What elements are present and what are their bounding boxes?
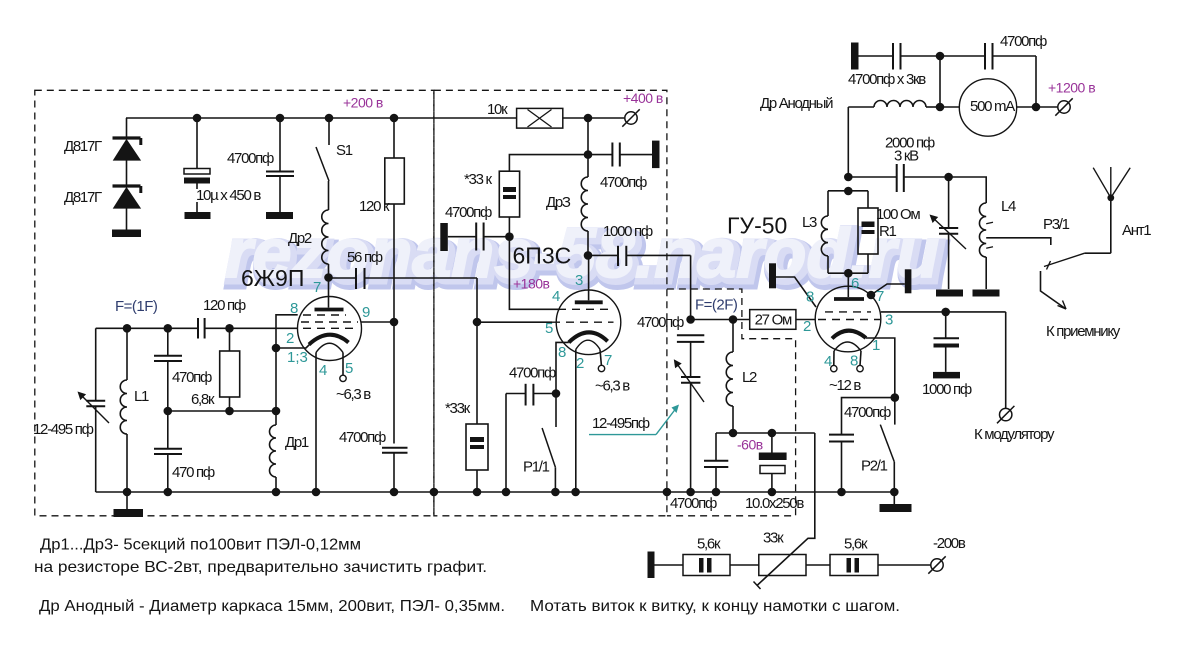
chassis bar bias left bbox=[648, 552, 655, 579]
svg-text:8: 8 bbox=[558, 344, 566, 361]
junction dot L1 top bbox=[123, 324, 132, 333]
svg-text:4: 4 bbox=[552, 288, 560, 305]
inductor L3 bbox=[827, 191, 829, 216]
junction dot 470pf top bbox=[164, 324, 173, 333]
wire mid node bbox=[168, 410, 276, 412]
ground symbol right bbox=[893, 492, 895, 504]
capacitor 1000pf modulator bbox=[945, 312, 947, 338]
svg-text:4: 4 bbox=[319, 362, 327, 379]
capacitor 4700pf screen bypass bbox=[440, 223, 448, 251]
junction dot L2 top bbox=[729, 315, 738, 324]
junction dot cathode 1;3 bbox=[272, 344, 281, 353]
wire to receiver bbox=[1041, 271, 1067, 309]
wire pin3 to modulator node bbox=[881, 311, 1006, 313]
chassis bar pin8 top bbox=[769, 263, 776, 288]
terminal pin7 heater circle (V2) bbox=[598, 365, 604, 371]
fuse/resistor 10k box bbox=[517, 108, 563, 128]
wire D2 to chassis bbox=[126, 208, 128, 230]
terminal pin5 heater circle bbox=[340, 375, 346, 381]
junction dot +180 node bbox=[505, 232, 514, 241]
svg-text:+1200 в: +1200 в bbox=[1048, 80, 1095, 96]
svg-text:4700пф: 4700пф bbox=[637, 314, 684, 331]
svg-text:5: 5 bbox=[345, 360, 353, 377]
wire ground rail bbox=[96, 491, 895, 493]
wire meter right bbox=[1017, 106, 1058, 108]
svg-text:9: 9 bbox=[362, 304, 370, 321]
pin 8 wire bbox=[776, 277, 816, 307]
svg-text:7: 7 bbox=[876, 288, 884, 305]
junction dot 10u cap on +200 rail bbox=[193, 114, 202, 123]
svg-text:3: 3 bbox=[885, 312, 893, 329]
junction dot L3R1 bottom bbox=[844, 269, 853, 278]
svg-text:Др Анодный: Др Анодный bbox=[760, 95, 833, 112]
svg-text:6,8к: 6,8к bbox=[191, 391, 215, 408]
variable capacitor PA tank bbox=[948, 177, 950, 228]
pin 7 wire to chassis bbox=[867, 291, 876, 300]
dashed box stage 1 bbox=[35, 90, 434, 516]
wire +180 to pin 4 of 6P3S bbox=[509, 237, 560, 310]
chassis bar 4700pf anode bbox=[652, 141, 660, 169]
svg-text:4700пф x 3кв: 4700пф x 3кв bbox=[848, 71, 926, 88]
junction dot 6P3S anode node bbox=[584, 251, 593, 260]
junction dot F2F input node bbox=[686, 315, 695, 324]
wire F2F node bbox=[691, 319, 750, 321]
wire filament pin4 6Ж9П to ground rail bbox=[315, 353, 317, 493]
svg-text:56 пф: 56 пф bbox=[347, 249, 383, 266]
wire grid pin5 6P3S bbox=[477, 321, 552, 323]
svg-text:F=(2F): F=(2F) bbox=[695, 297, 738, 314]
svg-text:4700пф: 4700пф bbox=[227, 150, 274, 167]
tube ГУ-50 cathode bbox=[832, 331, 866, 339]
wire -60V node bbox=[716, 432, 815, 434]
svg-text:1;3: 1;3 bbox=[287, 349, 308, 366]
switch P2/1 bbox=[894, 398, 896, 425]
chassis bar 1000pf PA bbox=[933, 372, 960, 379]
svg-text:4700пф: 4700пф bbox=[1000, 33, 1047, 50]
svg-text:470 пф: 470 пф bbox=[172, 464, 215, 481]
wire filament pin7 6P3S bbox=[600, 349, 601, 365]
svg-text:-200в: -200в bbox=[933, 535, 966, 552]
wire L4 top bbox=[949, 177, 987, 203]
wire screen node to 33k bbox=[509, 155, 588, 172]
svg-text:~6,3 в: ~6,3 в bbox=[595, 378, 630, 395]
svg-text:12-495 пф: 12-495 пф bbox=[33, 421, 94, 438]
svg-text:Р2/1: Р2/1 bbox=[861, 458, 888, 475]
svg-text:L4: L4 bbox=[1001, 198, 1016, 215]
svg-text:Мотать виток к витку, к концу: Мотать виток к витку, к концу намотки с … bbox=[530, 598, 900, 615]
svg-text:Р1/1: Р1/1 bbox=[523, 459, 550, 476]
svg-text:Д817Г: Д817Г bbox=[64, 138, 102, 155]
inductor L2 bbox=[732, 320, 734, 353]
svg-text:+180в: +180в bbox=[513, 276, 550, 292]
junction dot varcap PA top bbox=[944, 173, 953, 182]
svg-text:10к: 10к bbox=[487, 101, 508, 118]
capacitor 4700pf stage1 decoupling bbox=[382, 447, 408, 449]
dashed box F=(2F) filter bbox=[667, 289, 796, 516]
watermark rezonans-58.narod.ru bbox=[225, 214, 944, 298]
svg-text:Др1...Др3- 5секций по100вит ПЭ: Др1...Др3- 5секций по100вит ПЭЛ-0,12мм bbox=[40, 537, 361, 554]
wire 56pf to 6P3S grid corner bbox=[476, 278, 478, 322]
svg-text:120 пф: 120 пф bbox=[203, 297, 246, 314]
svg-text:7: 7 bbox=[604, 352, 612, 369]
chassis bar varcap PA bbox=[936, 290, 963, 297]
inductor L4 bbox=[979, 203, 986, 257]
switch S1 bbox=[328, 118, 330, 145]
wire L3R1 bottom bbox=[828, 272, 868, 274]
wire tank top bbox=[96, 327, 198, 329]
wire pin 9 to 120k line bbox=[361, 321, 394, 323]
svg-text:4700пф: 4700пф bbox=[844, 404, 891, 421]
junction dot +400 node bbox=[584, 114, 593, 123]
wire L4 tap to P3/1 bbox=[986, 238, 1051, 245]
resistor 6,8k bbox=[229, 328, 231, 351]
svg-text:12-495пф: 12-495пф bbox=[592, 415, 650, 432]
junction dot 2000pf left bbox=[844, 173, 853, 182]
tube 6П3С anode bbox=[588, 255, 590, 300]
junction dot 6.8k bottom wire at Dr1 bbox=[272, 407, 281, 416]
chassis bar 4700x3kv bbox=[851, 43, 859, 70]
capacitor 120pf bbox=[197, 318, 199, 339]
svg-text:К модулятору: К модулятору bbox=[974, 426, 1055, 443]
wire bias 2 bbox=[730, 564, 759, 566]
resistor *33k screen bbox=[499, 171, 519, 217]
wire cathode 6P3S down bbox=[556, 342, 569, 393]
junction dot anode HV node bbox=[936, 103, 945, 112]
label 10µ x 450 в bbox=[194, 189, 286, 202]
variable capacitor 12-495pf osc bbox=[95, 328, 97, 401]
capacitor 4700pf anode decoupling bbox=[588, 154, 612, 156]
tube 6Ж9П anode bbox=[328, 278, 330, 308]
wire filament pin4 GU-50 bbox=[833, 351, 835, 365]
junction dot grid 6P3S line bbox=[473, 318, 482, 327]
meter 500 mA bbox=[959, 79, 1016, 136]
resistor R1 100 Ом bbox=[867, 191, 869, 208]
switch P3/1 blade bbox=[1044, 253, 1085, 266]
chassis bar L4 bbox=[973, 290, 1000, 297]
junction dot screen node 6P3S bbox=[584, 150, 593, 159]
wire 10k to +400 terminal bbox=[563, 117, 625, 119]
junction dot 4700pf on +200 rail bbox=[276, 114, 285, 123]
potentiometer 33к bbox=[759, 555, 806, 576]
capacitor 2000pf 3kV bbox=[848, 176, 896, 178]
svg-text:4700пф: 4700пф bbox=[670, 495, 717, 512]
chassis bar below 10u cap bbox=[185, 212, 211, 219]
svg-text:на резисторе ВС-2вт, предварит: на резисторе ВС-2вт, предварительно зачи… bbox=[34, 559, 487, 576]
svg-text:8: 8 bbox=[806, 289, 814, 306]
svg-text:F=(1F): F=(1F) bbox=[115, 298, 158, 315]
choke Dr1 bbox=[275, 411, 277, 425]
tube 6П3С filament bbox=[576, 340, 600, 349]
wire meter left bbox=[940, 106, 959, 108]
svg-text:К приемнику: К приемнику bbox=[1046, 323, 1121, 340]
svg-text:L2: L2 bbox=[742, 369, 757, 386]
svg-text:6: 6 bbox=[851, 275, 859, 292]
tube 6П3С grid dashes bbox=[558, 308, 609, 310]
wire bias 4 bbox=[878, 564, 931, 566]
wire filament pin5 6Ж9П bbox=[342, 353, 344, 376]
svg-text:-60в: -60в bbox=[737, 437, 763, 453]
wire grid-leak column down bbox=[275, 348, 277, 411]
zener diode D2 Д817Г bbox=[113, 184, 141, 187]
terminal +1200 в bbox=[1058, 101, 1070, 113]
wire D1-D2 bbox=[126, 160, 128, 186]
svg-text:*33к: *33к bbox=[445, 400, 471, 417]
resistor 27 Ом bbox=[750, 310, 796, 330]
junction dot 6.8k top bbox=[225, 324, 234, 333]
tube ГУ-50 grid dashes bbox=[825, 311, 871, 313]
wire cathode cap to rail bbox=[505, 394, 507, 493]
tube 6П3С cathode bbox=[569, 332, 608, 342]
svg-text:3: 3 bbox=[575, 272, 583, 289]
svg-text:470пф: 470пф bbox=[172, 369, 212, 386]
wire bias 1 bbox=[655, 564, 684, 566]
variable capacitor 12-495pf F2F bbox=[681, 376, 700, 378]
capacitor 4700pf bias bbox=[715, 433, 717, 461]
tube V1 6Ж9П envelope bbox=[298, 297, 362, 361]
chassis bar below diodes bbox=[112, 230, 141, 238]
node anode 6Ж9П junction bbox=[324, 273, 333, 282]
wire cathode pin1 GU-50 bbox=[866, 338, 895, 398]
svg-text:ДрЗ: ДрЗ bbox=[546, 194, 571, 211]
svg-text:2: 2 bbox=[286, 330, 294, 347]
resistor 120k bbox=[393, 118, 395, 158]
wire HV vertical bbox=[939, 56, 941, 107]
wire anode choke down bbox=[847, 107, 849, 177]
junction dot L3R1 top bbox=[844, 187, 853, 196]
switch P1/1 bbox=[555, 394, 557, 428]
junction dot 1000pf PA bbox=[941, 308, 950, 317]
svg-text:Др1: Др1 bbox=[285, 434, 309, 451]
tube V2 6П3С envelope bbox=[556, 290, 621, 355]
capacitor 4700pf F2F bbox=[677, 334, 704, 336]
svg-text:10µ x 450 в: 10µ x 450 в bbox=[196, 187, 261, 204]
svg-text:~6,3 в: ~6,3 в bbox=[336, 386, 371, 403]
svg-text:3 кВ: 3 кВ bbox=[894, 148, 919, 165]
wire 33k to +180 node bbox=[508, 217, 510, 237]
wiper end tick bbox=[754, 582, 761, 590]
svg-text:27 Ом: 27 Ом bbox=[755, 312, 792, 329]
svg-text:ГУ-50: ГУ-50 bbox=[727, 213, 787, 239]
junction dot 120k on rail bbox=[390, 114, 399, 123]
svg-text:6П3С: 6П3С bbox=[513, 243, 572, 269]
tube ГУ-50 anode bbox=[847, 273, 849, 297]
svg-text:~12 в: ~12 в bbox=[829, 377, 861, 394]
wire +400 node down bbox=[587, 118, 589, 155]
antenna Ант1 bbox=[1110, 198, 1112, 253]
choke Dr anode bbox=[848, 106, 874, 108]
svg-text:120 к: 120 к bbox=[359, 198, 390, 215]
svg-text:4700пф: 4700пф bbox=[339, 429, 386, 446]
svg-text:10.0x250в: 10.0x250в bbox=[745, 495, 804, 512]
capacitor 56pf coupling bbox=[329, 277, 357, 279]
svg-text:S1: S1 bbox=[336, 142, 353, 159]
resistor 5,6k left bbox=[683, 555, 730, 576]
tube V3 ГУ-50 envelope bbox=[815, 286, 881, 352]
svg-text:4: 4 bbox=[824, 353, 832, 370]
wire filament pin2 6P3S to rail bbox=[575, 349, 577, 492]
tube 6Ж9П cathode bbox=[309, 335, 349, 345]
dashed box stage 2 bbox=[434, 90, 667, 516]
svg-text:Ант1: Ант1 bbox=[1122, 222, 1151, 239]
svg-text:*33 к: *33 к bbox=[464, 171, 492, 188]
svg-text:1000 пф: 1000 пф bbox=[922, 381, 972, 398]
zener diode D1 Д817Г bbox=[126, 118, 128, 138]
wire filament pin8 GU-50 bbox=[860, 351, 861, 365]
junction dot mid 6.8k bbox=[225, 407, 234, 416]
svg-text:500 mA: 500 mA bbox=[970, 98, 1015, 115]
capacitor 4700pf meter bypass bbox=[940, 55, 985, 57]
junction dot cathode node 6P3S bbox=[552, 389, 561, 398]
terminal pin4 circle (V3) bbox=[831, 365, 837, 371]
terminal К модулятору bbox=[1000, 408, 1012, 420]
svg-text:33к: 33к bbox=[763, 530, 784, 547]
svg-text:5,6к: 5,6к bbox=[697, 536, 721, 553]
svg-text:5,6к: 5,6к bbox=[844, 536, 868, 553]
svg-text:6Ж9П: 6Ж9П bbox=[241, 265, 304, 291]
junction dot mid 470pf bbox=[164, 407, 173, 416]
junction dots on ground rail bbox=[123, 488, 132, 497]
junction dot S1 on rail bbox=[325, 114, 334, 123]
resistor 5,6k right bbox=[830, 555, 878, 576]
capacitor 470pf lower bbox=[167, 411, 169, 449]
svg-text:Др Анодный - Диаметр каркаса 1: Др Анодный - Диаметр каркаса 15мм, 200ви… bbox=[39, 598, 505, 615]
svg-text:2: 2 bbox=[576, 355, 584, 372]
tube ГУ-50 filament bbox=[834, 342, 861, 351]
choke Dr3 bbox=[587, 155, 589, 177]
svg-text:4700пф: 4700пф bbox=[509, 365, 556, 382]
capacitor 4700pf GU50 cathode bbox=[842, 398, 895, 435]
capacitor 4700pf x 3kv bbox=[859, 55, 894, 57]
terminal -200в bbox=[931, 559, 943, 571]
wire bias 3 bbox=[806, 564, 830, 566]
wire 27 Ом to GU-50 grid bbox=[796, 319, 816, 321]
wire meter bypass down bbox=[1035, 56, 1037, 107]
chassis bar below 4700pf bbox=[266, 212, 293, 219]
wire -60V to potentiometer wiper bbox=[757, 433, 815, 586]
wire cathode 1;3 tap bbox=[276, 345, 310, 349]
wire to modulator terminal bbox=[1005, 312, 1007, 408]
resistor *33k grid leak bbox=[476, 322, 478, 424]
junction dot pin9/120k bbox=[390, 318, 399, 327]
capacitor 10u x 450V electrolytic bbox=[196, 118, 198, 169]
capacitor 4700pf PSU bypass bbox=[279, 118, 281, 171]
electrolytic 10.0x250v bbox=[768, 429, 777, 438]
svg-text:1000 пф: 1000 пф bbox=[603, 223, 653, 240]
svg-text:R1: R1 bbox=[879, 223, 897, 240]
wire +200V rail bbox=[126, 117, 517, 119]
wire L3 R1 top bbox=[828, 190, 868, 192]
svg-text:Д817Г: Д817Г bbox=[64, 189, 102, 206]
capacitor 1000pf coupling to PA bbox=[588, 254, 618, 256]
tube 6Ж9П filament bbox=[316, 343, 343, 352]
junction dot GU50 cathode node bbox=[891, 393, 900, 402]
svg-text:4700пф: 4700пф bbox=[600, 174, 647, 191]
chassis bar pin7 bbox=[905, 269, 912, 293]
capacitor 4700pf cathode bbox=[506, 393, 526, 395]
svg-text:4700пф: 4700пф bbox=[445, 204, 492, 221]
svg-text:8: 8 bbox=[850, 353, 858, 370]
svg-text:L1: L1 bbox=[134, 388, 149, 405]
junction dot -60V node bbox=[729, 429, 738, 438]
choke Dr2 bbox=[328, 181, 330, 210]
wire 1000pf to F2F node bbox=[690, 255, 692, 319]
svg-text:7: 7 bbox=[313, 279, 321, 296]
inductor L1 bbox=[126, 328, 128, 380]
svg-text:Р3/1: Р3/1 bbox=[1043, 216, 1070, 233]
junction dot meter output bbox=[1032, 103, 1041, 112]
svg-text:2: 2 bbox=[803, 318, 811, 335]
terminal +400 в bbox=[625, 112, 637, 124]
tube 6Ж9П grid dashes bbox=[303, 314, 346, 316]
inductor L4 tap ticks bbox=[986, 222, 993, 224]
junction dot HV top bbox=[936, 52, 945, 61]
svg-text:Др2: Др2 bbox=[288, 230, 312, 247]
terminal pin8 circle (V3) bbox=[857, 365, 863, 371]
svg-text:+400 в: +400 в bbox=[623, 90, 663, 106]
capacitor 470pf upper bbox=[167, 328, 169, 355]
svg-text:100 Ом: 100 Ом bbox=[876, 206, 920, 223]
svg-text:1: 1 bbox=[872, 337, 880, 354]
svg-text:5: 5 bbox=[545, 320, 553, 337]
wire pin 8 of 6Ж9П bbox=[276, 315, 298, 348]
svg-text:+200 в: +200 в bbox=[343, 95, 383, 111]
ground symbol main bbox=[126, 492, 128, 509]
svg-text:L3: L3 bbox=[802, 214, 817, 231]
